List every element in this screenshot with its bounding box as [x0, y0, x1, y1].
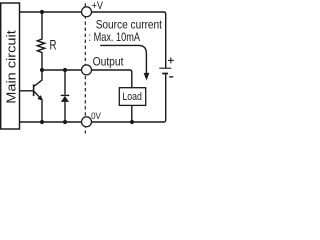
battery B1 — [159, 58, 174, 77]
wire: 0V rail right of terminal up to battery - — [92, 74, 166, 122]
node: diode/0V rail — [63, 120, 67, 124]
svg-text:Main circuit: Main circuit — [3, 30, 18, 104]
svg-text:0V: 0V — [91, 111, 101, 121]
main circuit box — [1, 3, 20, 129]
load box — [119, 88, 145, 122]
svg-text:+V: +V — [92, 0, 104, 12]
wire: +V rail from terminal to right side, down to battery + — [92, 12, 166, 68]
diode D1 — [61, 70, 70, 122]
annotation arrow (source current leader) — [100, 45, 149, 80]
base wire — [20, 90, 34, 92]
dashed terminal link line — [84, 3, 86, 133]
node: junction top rail / resistor — [40, 10, 44, 14]
svg-text:R: R — [50, 38, 57, 53]
resistor R — [37, 12, 56, 70]
transistor Q1 — [20, 70, 44, 122]
wire: 0V rail left of terminal — [20, 121, 82, 123]
plus sign — [168, 59, 174, 61]
collector diagonal — [34, 80, 42, 86]
node: junction diode/output — [63, 68, 67, 72]
wire: +V rail from main circuit to +V terminal — [20, 11, 82, 13]
terminal 0V — [82, 117, 92, 127]
emitter lead — [41, 101, 43, 122]
emitter diagonal — [34, 92, 40, 98]
wire: output wire from junction to Output terminal — [42, 69, 81, 71]
collector lead — [41, 70, 43, 81]
svg-text:Load: Load — [122, 91, 142, 103]
node: junction resistor/collector/output — [40, 68, 44, 72]
svg-text:: Max. 10mA: : Max. 10mA — [89, 30, 141, 44]
terminal +V — [82, 7, 92, 17]
short plate - — [162, 73, 168, 75]
minus sign — [169, 76, 173, 78]
terminal Output — [82, 65, 92, 75]
node: emitter/0V rail — [40, 120, 44, 124]
node: load/0V rail — [130, 120, 134, 124]
emitter arrowhead — [37, 95, 43, 101]
svg-text:Output: Output — [93, 55, 125, 69]
long plate + — [159, 67, 171, 69]
base bar — [33, 84, 35, 96]
wire: Output terminal to load, corner down — [92, 70, 132, 88]
